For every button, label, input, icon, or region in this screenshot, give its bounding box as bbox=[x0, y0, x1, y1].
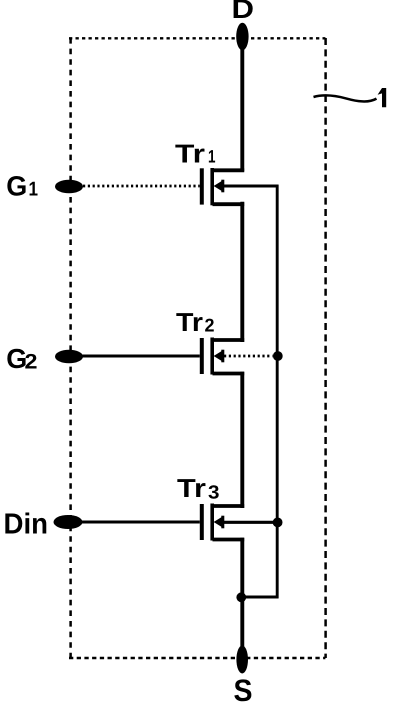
svg-text:3: 3 bbox=[208, 483, 220, 504]
svg-text:Tr: Tr bbox=[177, 473, 206, 503]
transistor Tr1 bbox=[202, 168, 244, 205]
svg-text:1: 1 bbox=[29, 179, 39, 201]
terminal pad G2 bbox=[55, 350, 83, 364]
svg-text:S: S bbox=[234, 673, 253, 708]
svg-text:1: 1 bbox=[208, 147, 216, 167]
label 1 bbox=[378, 88, 387, 107]
wire: G1 to Tr1 gate (dotted) bbox=[83, 185, 200, 188]
transistor Tr2 bbox=[202, 338, 244, 375]
svg-text:D: D bbox=[232, 0, 255, 24]
wire: Din to Tr3 gate bbox=[82, 521, 200, 524]
svg-text:Din: Din bbox=[4, 509, 49, 541]
terminal pad Din bbox=[54, 515, 83, 529]
svg-text:Tr: Tr bbox=[176, 307, 203, 337]
enclosure box 1 (dashed) right edge bbox=[324, 38, 327, 658]
terminal pad D bbox=[236, 23, 248, 51]
svg-text:G: G bbox=[6, 171, 27, 202]
transistor Tr3 bbox=[202, 504, 244, 541]
enclosure box 1 (dashed) bottom edge bbox=[69, 657, 325, 659]
terminal label G2 bbox=[6, 343, 37, 374]
wire: Tr2 source down to Tr3 drain bbox=[240, 372, 244, 508]
wire: Tr3 body to body bus bbox=[222, 521, 273, 524]
wire: terminal D down to Tr1 drain bbox=[240, 24, 244, 172]
junction: Tr3 body on bus bbox=[273, 518, 283, 528]
wire: G2 to Tr2 gate bbox=[83, 355, 200, 358]
enclosure box 1 (dashed) top edge bbox=[69, 37, 325, 39]
wire: Tr3 source down to terminal S bbox=[240, 538, 244, 660]
svg-text:2: 2 bbox=[25, 351, 38, 374]
svg-text:2: 2 bbox=[205, 315, 215, 336]
wire: Tr1 body to body bus bbox=[222, 185, 278, 188]
terminal pad G1 bbox=[55, 180, 83, 194]
junction: body bus on source wire bbox=[236, 592, 246, 602]
terminal label G1 bbox=[6, 171, 38, 202]
junction: Tr2 body on bus bbox=[273, 351, 283, 361]
wire: Tr1 source down to Tr2 drain bbox=[240, 202, 244, 342]
leader line to label 1 bbox=[314, 96, 377, 102]
svg-text:Tr: Tr bbox=[175, 139, 205, 169]
wire: Tr2 body to body bus (dotted) bbox=[224, 355, 273, 358]
enclosure box 1 (dashed) left edge bbox=[69, 38, 72, 658]
wire: body bus vertical bbox=[276, 185, 279, 599]
terminal pad S bbox=[236, 646, 248, 674]
wire: body bus to source node bbox=[240, 596, 278, 599]
